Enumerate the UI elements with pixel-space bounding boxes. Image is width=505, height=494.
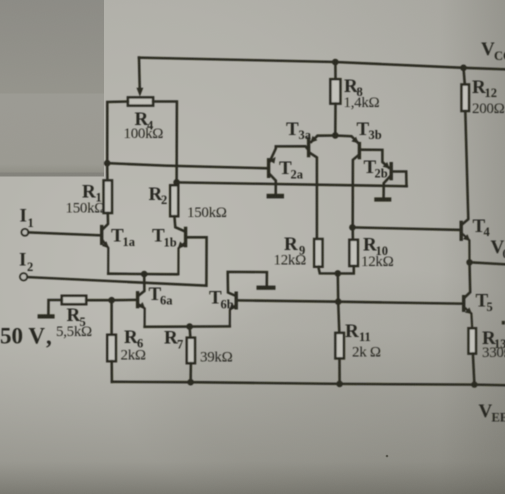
- node: emitter/T6a junction: [141, 271, 148, 278]
- wire: R8 down to mirror node: [334, 104, 337, 136]
- wire: R11 to bottom rail: [338, 358, 341, 384]
- terminal I2: [20, 273, 27, 280]
- resistor R4 arrow: [137, 88, 144, 97]
- resistor R11: [335, 333, 344, 359]
- resistor R4: [128, 97, 153, 105]
- ground right of T6b: [257, 286, 276, 290]
- transistor T5: [462, 297, 465, 311]
- wire: T3a collector down to R9: [310, 153, 317, 239]
- node: R11 bottom: [336, 381, 343, 388]
- wire: R13 to bottom rail: [473, 354, 475, 385]
- wire: node down to R6: [110, 300, 113, 335]
- wire: down to T5 collector: [465, 262, 470, 297]
- wire: emitters T1a-T1b: [108, 272, 177, 275]
- ground under T2b: [374, 197, 391, 201]
- wire: T6a emitter rail: [145, 325, 230, 328]
- wire: R5 right to node: [86, 299, 111, 302]
- gray block top-left lower: [0, 94, 104, 177]
- wire: R9 R10 bottoms joined: [318, 266, 354, 274]
- wire: T6a base from R5 node: [112, 299, 137, 302]
- wire: node to R7: [188, 327, 191, 338]
- wire: R12 from VCC: [464, 68, 465, 85]
- resistor R1: [104, 180, 112, 213]
- wire: R7 to bottom rail: [189, 363, 192, 382]
- edge mark right: [502, 321, 505, 325]
- node: R9/R10 junction: [335, 270, 342, 277]
- wire: T2a bottom to ground: [270, 175, 276, 194]
- ground under R5: [38, 314, 55, 318]
- transistor T3b: [358, 144, 361, 158]
- transistor T1a: [100, 227, 103, 244]
- node: R5/T6a/R6 junction: [108, 297, 115, 304]
- wire: long wire from node B: [177, 182, 407, 186]
- wire: T6b base to T5 base: [238, 300, 463, 303]
- transistor T2b: [390, 164, 393, 179]
- wire: VCC top rail: [139, 58, 505, 70]
- node: V0 junction: [466, 259, 472, 265]
- resistor R13: [469, 328, 477, 353]
- resistor R12: [462, 85, 470, 112]
- resistor R5: [62, 296, 86, 304]
- node: R7 top junction: [186, 323, 193, 330]
- wire: T4 base wire: [352, 227, 460, 230]
- resistor R10: [349, 240, 358, 266]
- node A: R4/R1/T2a-base junction: [104, 160, 111, 167]
- wire: node to R11: [338, 302, 339, 333]
- wire: node to T3b emitter: [335, 136, 357, 143]
- wire: R1 to T1a collector: [103, 213, 108, 229]
- node: T3a/T3b emitter junction: [332, 132, 339, 139]
- wire: R2 to T1b collector: [174, 216, 184, 231]
- wire: T6b collector loop and ground: [228, 272, 267, 296]
- wire: T2a base wire from node A: [107, 163, 267, 168]
- node: junction VCC/R12: [460, 65, 467, 72]
- wire: R6 to bottom rail: [110, 361, 113, 382]
- node: R11 top junction: [335, 298, 342, 305]
- wire: R12 down to T4 collector: [463, 111, 469, 224]
- wire: down to base rail: [337, 273, 340, 301]
- resistor R2: [170, 185, 178, 216]
- transistor T4: [460, 222, 463, 239]
- wire: bottom VEE rail: [112, 382, 505, 385]
- ground under T2a: [267, 194, 284, 199]
- wire: T3b collector down to R10: [353, 156, 358, 240]
- transistor T1b: [184, 228, 187, 245]
- transistor T2a: [267, 160, 270, 177]
- resistor R7: [187, 338, 195, 364]
- wire: T5 emitter down to R13: [465, 308, 472, 328]
- resistor R8: [330, 79, 340, 103]
- node: junction VCC/R8: [332, 59, 339, 66]
- gray block top-left upper: [0, 0, 104, 94]
- transistor T6b: [234, 293, 237, 308]
- wire: node B down to R2: [175, 182, 177, 185]
- wire: T4 emitter down: [463, 234, 470, 262]
- wire: T2a top to T3a base: [270, 146, 309, 161]
- photo speck: [386, 455, 389, 458]
- transistor T3a: [307, 139, 310, 156]
- wire: T2b collector to ground: [384, 177, 390, 198]
- wire: T2b base loop to long wire: [393, 172, 407, 187]
- resistor R9: [314, 239, 322, 267]
- wire: R4 left branch: [107, 102, 128, 164]
- transistor T6a: [136, 293, 139, 307]
- terminal I1: [22, 229, 29, 236]
- wire: V0 output: [470, 262, 505, 264]
- wire: R4 right branch: [153, 102, 177, 183]
- wire: node A down to R1: [106, 163, 109, 180]
- wire: node to T3a emitter: [311, 136, 335, 143]
- node: R7 bottom: [187, 379, 194, 386]
- node: T4 base branch junction: [349, 224, 356, 231]
- wire: R8 from VCC: [334, 65, 337, 79]
- wire: I1 to T1a base: [28, 232, 100, 235]
- wire: down to T6a collector: [139, 274, 144, 295]
- node: R13 bottom: [471, 381, 477, 387]
- wire: R5 left to ground: [48, 300, 61, 314]
- wire: T3b base to T2b emitter: [361, 150, 389, 168]
- wire: drop from rail to R4 arrow: [138, 58, 141, 88]
- wire: I2 to T1b base loop: [27, 237, 206, 285]
- node B: R4/R2/long-wire junction: [173, 179, 180, 186]
- resistor R6: [107, 335, 116, 361]
